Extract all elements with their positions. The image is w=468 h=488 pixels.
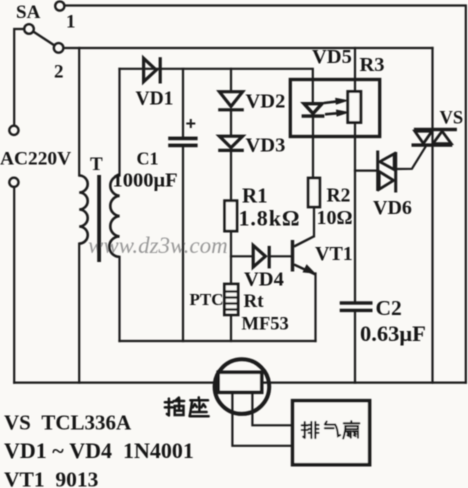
AC220V terminals <box>9 126 18 187</box>
wire: C1 leads <box>182 69 184 137</box>
diode VD2 <box>218 92 244 110</box>
photoresistor R3 <box>348 92 361 123</box>
wire: R2 bottom to VT1 collector <box>313 207 315 236</box>
svg-text:1.8kΩ: 1.8kΩ <box>239 206 301 231</box>
wire: PTC bottom to ground rail <box>230 315 232 341</box>
diode VD4 <box>253 245 269 268</box>
svg-text:C1: C1 <box>137 149 159 169</box>
wire: socket right prong to fan <box>252 392 292 425</box>
thermistor Rt PTC <box>224 284 238 315</box>
svg-text:VD3: VD3 <box>246 135 286 157</box>
svg-text:VD5: VD5 <box>312 46 352 68</box>
wire: low-voltage ground rail <box>120 340 316 342</box>
wire: rail from SA contact 2 to triac column <box>64 47 433 49</box>
svg-text:PTC: PTC <box>190 290 224 309</box>
svg-text:1: 1 <box>66 12 76 33</box>
char zuo <box>190 397 209 416</box>
label fan (hand-drawn CJK) <box>302 421 360 438</box>
switch SA <box>24 1 64 52</box>
svg-text:1000μF: 1000μF <box>113 170 178 192</box>
wire: R3 bottom lead down to C2 <box>354 123 356 302</box>
char cha <box>165 398 184 416</box>
svg-text:R3: R3 <box>360 54 385 76</box>
capacitor C2 <box>340 301 373 312</box>
optocoupler box <box>290 80 379 137</box>
wire: VD2/VD3/R1 column <box>230 69 232 91</box>
socket (plug) <box>215 359 270 414</box>
svg-text:R1: R1 <box>242 184 268 208</box>
diac VD6 <box>376 151 397 193</box>
wire: LED cathode to R2 <box>312 117 314 178</box>
char pai <box>302 422 319 438</box>
svg-text:AC220V: AC220V <box>0 149 71 170</box>
transformer T <box>79 176 119 257</box>
svg-text:VD2: VD2 <box>246 91 286 113</box>
wire: VD6 right to triac gate <box>397 146 427 170</box>
wire: transformer primary leads <box>78 48 80 176</box>
wire: C2 bottom lead <box>354 312 356 383</box>
wire: node to VD6 left <box>355 170 377 172</box>
diode VD3 <box>218 136 244 150</box>
wire: R3 top lead to mains rail <box>354 48 356 91</box>
wire: VT1 emitter to ground rail <box>314 274 316 342</box>
svg-text:C2: C2 <box>376 296 402 320</box>
wire: secondary top lead <box>118 69 120 176</box>
svg-text:VS TCL336A: VS TCL336A <box>4 411 132 435</box>
primary winding <box>79 176 88 244</box>
svg-text:R2: R2 <box>327 186 351 207</box>
wire: triac column (through symbol) <box>431 48 433 383</box>
capacitor C1 <box>168 137 197 148</box>
svg-text:VS: VS <box>440 109 464 129</box>
secondary winding <box>109 176 119 257</box>
svg-text:VT1: VT1 <box>315 243 353 265</box>
svg-text:Rt: Rt <box>244 291 265 312</box>
resistor R1 <box>225 201 237 231</box>
svg-text:SA: SA <box>16 2 41 23</box>
wire: socket left prong to fan <box>232 392 292 445</box>
svg-text:VD4: VD4 <box>244 269 284 291</box>
wire: top rail from SA contact 1 to right edge and down <box>65 6 466 383</box>
wire: AC220V lower terminal down to bottom rail <box>13 187 15 383</box>
diode VD1 <box>144 57 161 83</box>
char shan <box>343 421 359 438</box>
svg-text:VD1: VD1 <box>136 89 174 110</box>
wire: SA pole to left column <box>14 29 24 126</box>
svg-text:VD6: VD6 <box>373 197 412 219</box>
wire: rectified rail from secondary over VD1 to optocoupler LED <box>120 69 313 104</box>
wire: bottom neutral rail through socket <box>14 382 466 384</box>
char qi <box>325 422 340 437</box>
svg-text:VT1 9013: VT1 9013 <box>4 468 99 488</box>
transformer core <box>97 175 101 262</box>
svg-text:VD1 ~ VD4 1N4001: VD1 ~ VD4 1N4001 <box>4 438 194 463</box>
LED VD5 <box>302 104 325 116</box>
wire: VD4 branch to VT1 base <box>231 255 253 257</box>
resistor R2 <box>308 178 320 207</box>
wire: R1 bottom to PTC top with VD4 node <box>230 231 232 284</box>
triac VS <box>412 128 457 147</box>
label socket (hand-drawn CJK) <box>165 397 209 416</box>
transistor VT1 <box>291 236 316 274</box>
svg-text:MF53: MF53 <box>242 315 289 335</box>
svg-text:T: T <box>90 154 103 175</box>
wire: secondary bottom lead to low rail <box>118 257 120 341</box>
svg-text:0.63μF: 0.63μF <box>360 321 426 346</box>
fan box <box>293 401 370 465</box>
light arrows <box>324 98 350 117</box>
svg-text:2: 2 <box>54 62 64 83</box>
svg-text:10Ω: 10Ω <box>317 207 353 229</box>
